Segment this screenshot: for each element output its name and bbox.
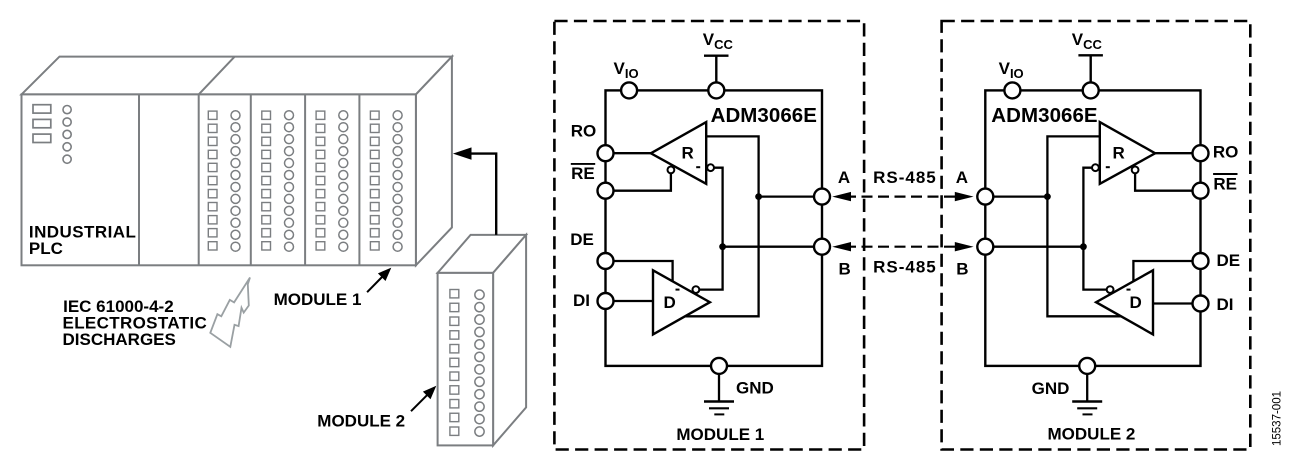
svg-text:D: D	[1130, 293, 1142, 312]
junction node B (module 2)	[1080, 243, 1087, 250]
pin RE (module 1)	[598, 183, 614, 199]
PLC panel divider 4	[304, 94, 306, 265]
arrow MODULE 2 label to module 2 box	[411, 386, 436, 411]
pin GND (module 1)	[711, 358, 727, 374]
PLC top face divider	[199, 57, 235, 95]
driver D1 inverting output bubble	[693, 286, 700, 293]
receiver R1 inverting input bubble	[707, 164, 714, 171]
PLC panel divider 1	[138, 94, 140, 265]
pin DE (module 1)	[598, 253, 614, 269]
RS-485 line B arrowhead left	[832, 242, 851, 251]
PLC I/O module 2 terminal squares	[262, 111, 271, 250]
wire receiver R2 input A / driver D2 output A (module 2)	[1047, 136, 1121, 316]
wire DE to driver D1 enable	[606, 261, 673, 282]
pin A (module 1)	[814, 189, 830, 205]
RS-485 line B arrowhead right	[955, 242, 974, 251]
svg-text:D: D	[664, 293, 676, 312]
svg-text:MODULE 2: MODULE 2	[317, 412, 405, 431]
PLC panel divider 5	[358, 94, 360, 265]
wire receiver R2 output to RO (module 2)	[1155, 152, 1200, 154]
svg-text:DI: DI	[573, 291, 590, 310]
svg-text:RE: RE	[1213, 174, 1237, 193]
PLC CPU indicator rectangles	[33, 105, 51, 143]
pin DI (module 2)	[1193, 296, 1209, 312]
PLC I/O module 4 terminal squares	[370, 111, 379, 250]
op-amp U1 IC boundary ADM3066E (module 1)	[606, 90, 823, 366]
wire receiver R2 inverting input B / driver D2 inverting output B (module 2)	[1083, 168, 1106, 290]
svg-text:A: A	[838, 168, 850, 187]
junction node A (module 1)	[755, 193, 762, 200]
receiver R2 inverting input bubble (module 2)	[1092, 164, 1099, 171]
label INDUSTRIAL PLC	[29, 222, 136, 257]
wire DI to driver D2 input (module 2)	[1153, 302, 1201, 304]
svg-text:GND: GND	[1032, 379, 1070, 398]
PLC I/O module 1 LED circles	[231, 111, 240, 251]
power VCC symbol (module 1)	[704, 56, 729, 83]
pin VIO (module 2)	[1004, 82, 1020, 98]
RS-485 dashed line A	[845, 196, 962, 198]
module 1 dashed enclosure	[554, 21, 864, 450]
pin DI (module 1)	[598, 293, 614, 309]
svg-text:B: B	[839, 259, 851, 278]
svg-text:DE: DE	[570, 230, 594, 249]
pin VCC (module 2)	[1083, 82, 1099, 98]
svg-text:15537-001: 15537-001	[1272, 391, 1284, 446]
receiver R1 enable bubble	[668, 167, 675, 174]
wire node B to pin B (module 2)	[985, 246, 1083, 248]
pin RE (module 2)	[1193, 183, 1209, 199]
svg-text:RO: RO	[1213, 143, 1239, 162]
PLC right face	[416, 57, 452, 266]
pin B (module 1)	[814, 239, 830, 255]
RS-485 dashed line B	[845, 246, 962, 248]
RS-485 line A arrowhead right	[955, 192, 974, 201]
arrow MODULE 1 label to PLC	[367, 268, 391, 293]
module 2 box terminal squares	[450, 290, 459, 436]
svg-text:GND: GND	[736, 379, 774, 398]
power VCC symbol (module 2)	[1078, 55, 1103, 82]
ESD lightning bolt	[210, 278, 250, 347]
wire node A to pin A (module 1)	[759, 195, 822, 197]
wire node B to pin B (module 1)	[723, 246, 822, 248]
module 2 box LED circles	[475, 290, 484, 436]
PLC panel divider 2	[198, 94, 200, 265]
op-amp U2 IC boundary ADM3066E (module 2)	[985, 90, 1200, 366]
wire receiver R1 input A / driver D1 output A	[685, 136, 759, 316]
PLC I/O module 1 terminal squares	[208, 111, 217, 250]
svg-text:DISCHARGES: DISCHARGES	[63, 330, 176, 349]
PLC CPU indicator LEDs	[63, 106, 71, 164]
wire receiver R1 inverting input B / driver D1 inverting output B	[699, 168, 722, 290]
wire DI to driver D1 input	[606, 300, 654, 302]
PLC front face	[22, 94, 416, 265]
arrow module 2 box to PLC	[453, 147, 496, 235]
pin VIO (module 1)	[621, 82, 637, 98]
PLC I/O module 4 LED circles	[393, 111, 402, 251]
junction node B (module 1)	[719, 243, 726, 250]
pin RO (module 2)	[1193, 145, 1209, 161]
svg-text:RE: RE	[571, 164, 595, 183]
svg-text:ADM3066E: ADM3066E	[991, 104, 1097, 127]
PLC I/O module 2 LED circles	[285, 111, 294, 251]
ground symbol (module 1)	[704, 374, 734, 415]
label RE with overline (module 2)	[1213, 174, 1237, 193]
wire RO to receiver R1	[606, 152, 651, 154]
driver D2 inverting output bubble (module 2)	[1107, 286, 1114, 293]
svg-text:MODULE 2: MODULE 2	[1048, 425, 1136, 444]
junction node A (module 2)	[1044, 193, 1051, 200]
receiver R2 triangle (module 2)	[1100, 122, 1155, 184]
pin A (module 2)	[977, 189, 993, 205]
svg-text:ADM3066E: ADM3066E	[711, 104, 817, 127]
label RE with overline (module 1)	[571, 164, 595, 183]
svg-text:R: R	[682, 144, 694, 163]
PLC I/O module 3 terminal squares	[316, 111, 325, 250]
svg-text:B: B	[956, 259, 968, 278]
pin VCC (module 1)	[708, 82, 724, 98]
svg-text:RO: RO	[571, 122, 597, 141]
PLC I/O module 3 LED circles	[339, 111, 348, 251]
module 2 box front face	[438, 273, 494, 446]
PLC top face	[22, 57, 452, 95]
PLC panel divider 3	[250, 94, 252, 265]
receiver R2 enable bubble (module 2)	[1132, 167, 1139, 174]
label IEC 61000-4-2 ELECTROSTATIC DISCHARGES	[63, 297, 208, 349]
wire node A to pin A (module 2)	[985, 195, 1047, 197]
wire DE to driver D2 enable (module 2)	[1133, 261, 1200, 282]
svg-text:R: R	[1113, 144, 1125, 163]
RS-485 line A arrowhead left	[832, 192, 851, 201]
svg-text:PLC: PLC	[29, 239, 63, 258]
pin B (module 2)	[977, 239, 993, 255]
svg-text:A: A	[956, 168, 968, 187]
svg-text:MODULE 1: MODULE 1	[274, 290, 362, 309]
svg-text:DE: DE	[1217, 251, 1241, 270]
module 2 box right face	[493, 235, 526, 446]
svg-text:DI: DI	[1217, 295, 1234, 314]
driver D2 triangle (module 2)	[1096, 270, 1153, 334]
svg-text:RS-485: RS-485	[873, 257, 937, 276]
ground symbol (module 2)	[1072, 374, 1102, 415]
receiver R1 triangle (module 1)	[651, 122, 706, 184]
driver D1 triangle (module 1)	[653, 270, 710, 334]
wire RE to receiver R1 enable bubble	[606, 173, 671, 190]
pin RO (module 1)	[598, 145, 614, 161]
module 2 dashed enclosure	[942, 21, 1251, 450]
svg-text:MODULE 1: MODULE 1	[676, 425, 764, 444]
svg-text:RS-485: RS-485	[873, 168, 937, 187]
pin DE (module 2)	[1193, 253, 1209, 269]
pin GND (module 2)	[1079, 358, 1095, 374]
wire RE to receiver R2 enable bubble (module 2)	[1135, 173, 1200, 190]
module 2 box top face	[438, 235, 526, 273]
